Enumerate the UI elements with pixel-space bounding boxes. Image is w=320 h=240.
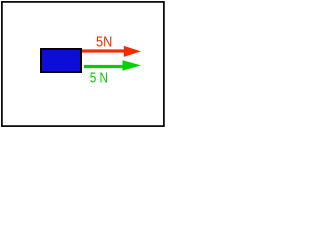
force arrow F1 (red, 5N, rightward) xyxy=(82,46,141,57)
svg-text:5N: 5N xyxy=(96,35,112,51)
force arrow F2 (green, 5 N, rightward) xyxy=(84,60,141,70)
label 5 N (green) xyxy=(90,71,108,87)
label 5N (red) xyxy=(96,35,112,51)
svg-text:5 N: 5 N xyxy=(90,71,108,87)
block (mass) xyxy=(41,49,81,72)
